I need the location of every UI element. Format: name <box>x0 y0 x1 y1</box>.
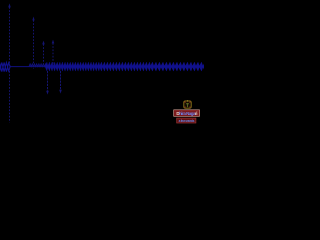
svg-text:a few words: a few words <box>179 119 195 123</box>
logo emblem <box>184 100 191 108</box>
arrow line F <box>59 71 62 94</box>
waveform chevron band <box>45 62 207 71</box>
wire flat baseline <box>10 66 47 68</box>
arrow line E <box>52 40 55 64</box>
svg-text:Dhira Nagari: Dhira Nagari <box>176 111 197 116</box>
waveform burst left <box>0 63 10 72</box>
arrow line A <box>8 3 11 122</box>
logo bar 2 <box>177 118 196 123</box>
arrow line B <box>32 17 34 69</box>
arrow line D <box>46 71 49 95</box>
wire small sawtooth <box>29 64 47 67</box>
logo bar 1 <box>174 110 200 117</box>
arrow line C <box>42 41 45 65</box>
